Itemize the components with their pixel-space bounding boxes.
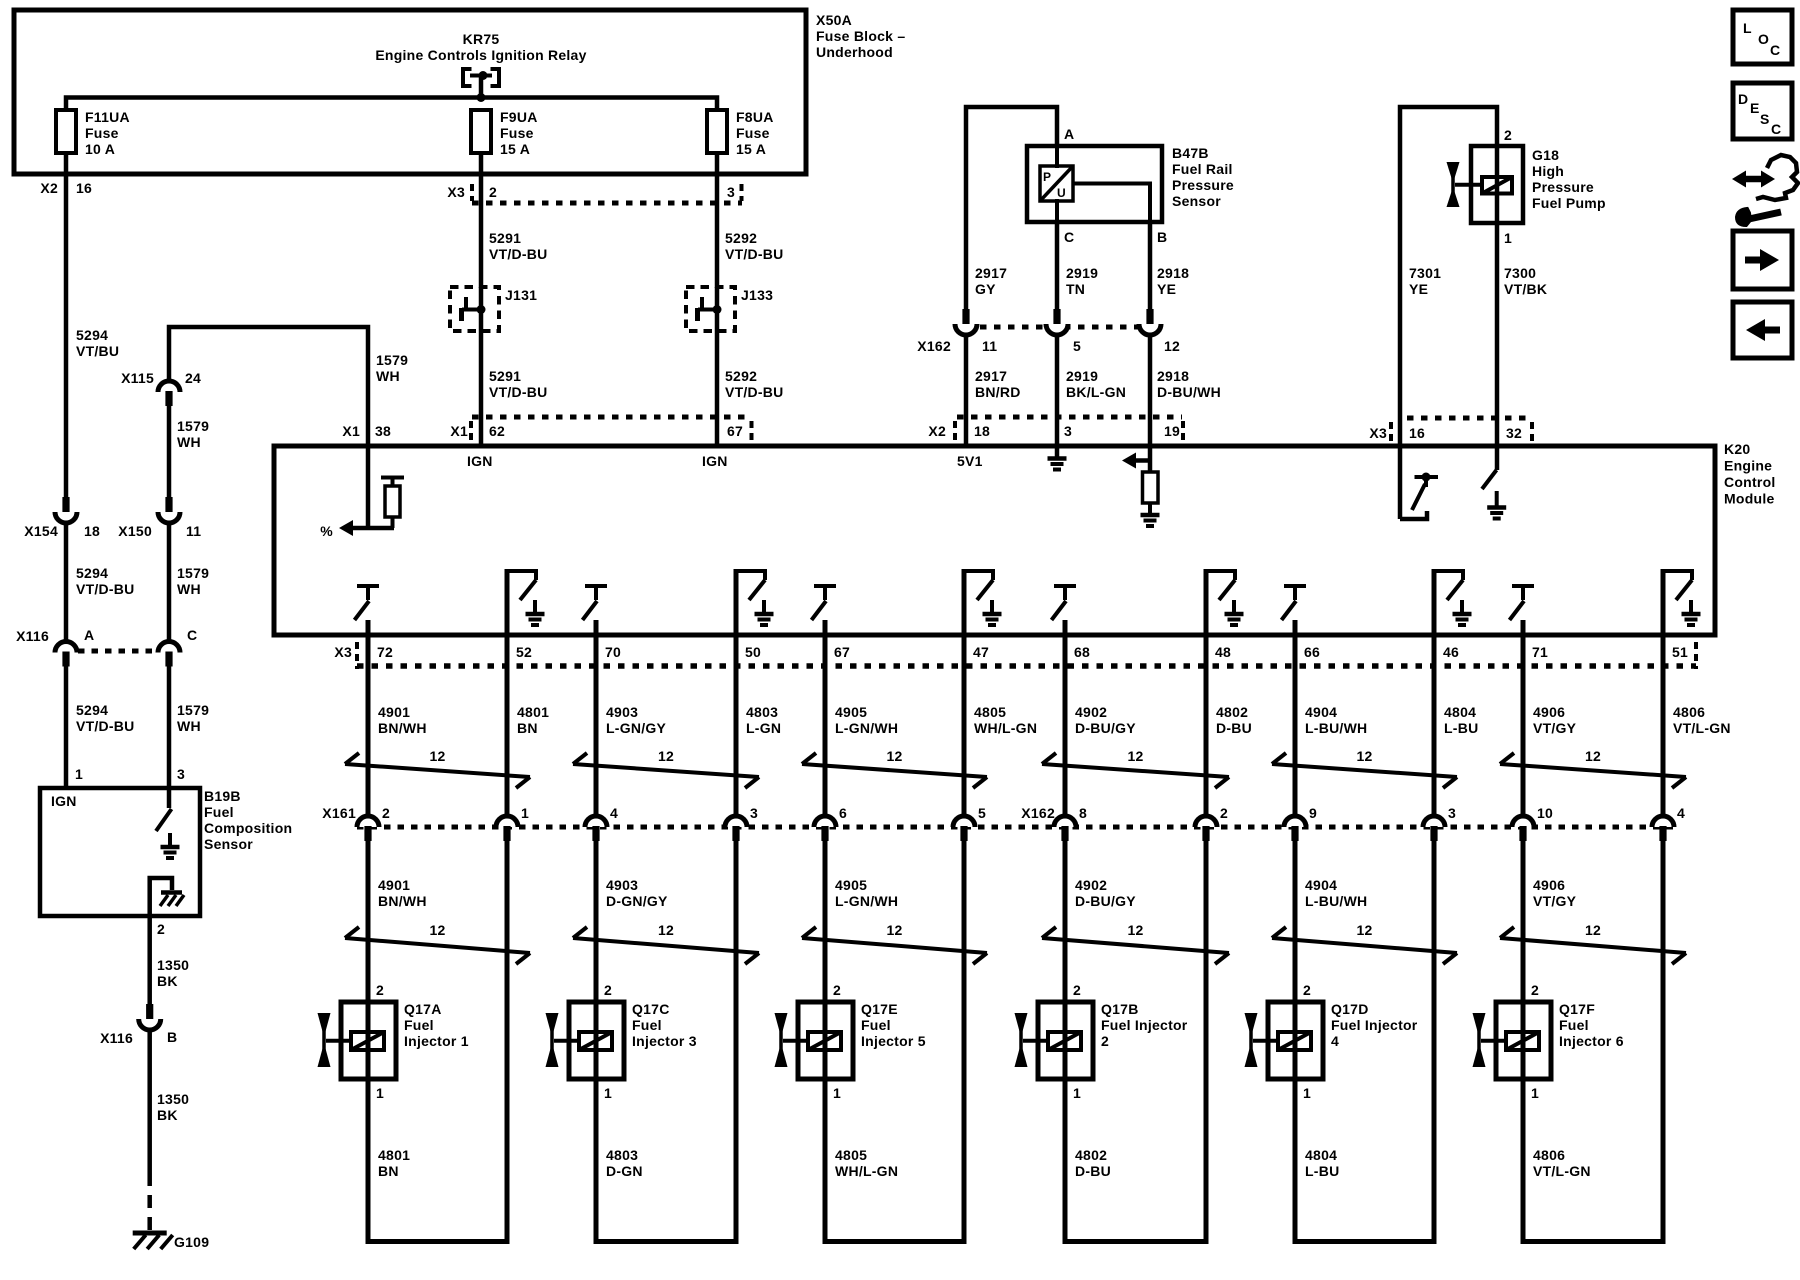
svg-text:BN/WH: BN/WH xyxy=(378,893,427,909)
svg-text:B47B: B47B xyxy=(1172,145,1209,161)
svg-text:4904: 4904 xyxy=(1305,704,1337,720)
svg-text:Fuel Pump: Fuel Pump xyxy=(1532,195,1606,211)
wire 4803 injector Q17C pin 1 down xyxy=(594,1079,599,1244)
wire 4902 connector to injector Q17B xyxy=(1063,840,1068,1003)
svg-text:VT/D-BU: VT/D-BU xyxy=(76,581,135,597)
svg-text:1: 1 xyxy=(604,1085,612,1101)
injector Q17C coil xyxy=(579,1032,612,1050)
svg-text:WH/L-GN: WH/L-GN xyxy=(974,720,1037,736)
G18 stub to coil xyxy=(1455,183,1482,187)
svg-text:1: 1 xyxy=(833,1085,841,1101)
svg-text:5292: 5292 xyxy=(725,230,757,246)
svg-text:VT/D-BU: VT/D-BU xyxy=(489,246,548,262)
splice J131 symbol xyxy=(462,308,481,312)
svg-text:2: 2 xyxy=(382,805,390,821)
svg-text:38: 38 xyxy=(375,423,391,439)
svg-text:12: 12 xyxy=(1356,922,1372,938)
svg-text:VT/L-GN: VT/L-GN xyxy=(1533,1163,1591,1179)
svg-text:BN: BN xyxy=(378,1163,399,1179)
svg-text:12: 12 xyxy=(1127,748,1143,764)
svg-text:4905: 4905 xyxy=(835,704,867,720)
svg-text:62: 62 xyxy=(489,423,505,439)
connector X116 pin B xyxy=(146,1004,153,1019)
svg-text:Q17D: Q17D xyxy=(1331,1001,1369,1017)
wire 4805 injector Q17E pin 1 down xyxy=(823,1079,828,1244)
svg-text:VT/BU: VT/BU xyxy=(76,343,119,359)
wire 5294 VT/BU fuse F11UA to X154 xyxy=(64,153,69,497)
svg-text:1: 1 xyxy=(376,1085,384,1101)
connector X161 X162 dotted line xyxy=(357,825,1676,830)
injector Q17F coil xyxy=(1506,1032,1539,1050)
wire ECM pin 71 to connector xyxy=(1521,620,1526,816)
wire ECM pin 47 to connector xyxy=(962,569,967,816)
svg-text:B19B: B19B xyxy=(204,788,241,804)
svg-text:Fuel: Fuel xyxy=(632,1017,662,1033)
svg-text:Injector 5: Injector 5 xyxy=(861,1033,926,1049)
svg-text:L-GN/GY: L-GN/GY xyxy=(606,720,666,736)
ECM internal wire pin 38 xyxy=(366,446,371,530)
icon hand with arrows and wrench xyxy=(1744,176,1763,183)
svg-text:Fuel: Fuel xyxy=(861,1017,891,1033)
svg-text:5294: 5294 xyxy=(76,565,108,581)
svg-text:4: 4 xyxy=(1677,805,1685,821)
svg-text:4801: 4801 xyxy=(378,1147,410,1163)
svg-text:L-BU/WH: L-BU/WH xyxy=(1305,893,1367,909)
svg-text:2: 2 xyxy=(1073,982,1081,998)
svg-text:Q17E: Q17E xyxy=(861,1001,898,1017)
svg-text:WH: WH xyxy=(376,368,400,384)
ECM ground switch pin 50 xyxy=(736,571,765,580)
icon forward arrow box xyxy=(1733,231,1792,289)
ECM injector driver output pin 68 xyxy=(1054,584,1076,588)
wire 5292 VT/D-BU fuse to splice J133 xyxy=(715,153,720,288)
component B19B Fuel Composition Sensor box xyxy=(40,788,200,916)
wire 1350 BK X116 to ground xyxy=(147,1030,152,1173)
svg-text:4802: 4802 xyxy=(1216,704,1248,720)
bundle 12 wires crossing 4903/4803 upper xyxy=(573,764,759,777)
svg-text:3: 3 xyxy=(727,184,735,200)
wire 4904 connector to injector Q17D xyxy=(1293,840,1298,1003)
G18 internal wire xyxy=(1495,146,1500,223)
svg-text:YE: YE xyxy=(1157,281,1176,297)
wire 4806 injector Q17F pin 1 down xyxy=(1521,1079,1526,1244)
svg-text:D-BU/GY: D-BU/GY xyxy=(1075,893,1136,909)
svg-text:4806: 4806 xyxy=(1673,704,1705,720)
wire ECM pin 51 to connector xyxy=(1661,569,1666,816)
ECM internal percent output arrow xyxy=(351,526,394,531)
svg-text:VT/D-BU: VT/D-BU xyxy=(725,246,784,262)
svg-text:5291: 5291 xyxy=(489,230,521,246)
svg-text:32: 32 xyxy=(1506,425,1522,441)
connector X162 pin 12 xyxy=(1146,309,1153,324)
svg-text:24: 24 xyxy=(185,370,201,386)
svg-text:5294: 5294 xyxy=(76,327,108,343)
connector X150 pin 11 xyxy=(165,497,172,512)
wire 4805 connector to bottom link xyxy=(962,840,967,1244)
svg-text:4805: 4805 xyxy=(835,1147,867,1163)
fuel injector Q17B box xyxy=(1038,1002,1093,1079)
wire 5291 VT/D-BU fuse to splice J131 xyxy=(479,153,484,288)
splice J133 dashed box xyxy=(686,287,735,331)
connector X161 pin 3 xyxy=(725,816,747,827)
icon back arrow box xyxy=(1733,302,1792,358)
icon LOC box xyxy=(1733,10,1792,64)
svg-text:2918: 2918 xyxy=(1157,368,1189,384)
svg-text:2917: 2917 xyxy=(975,265,1007,281)
wire ECM pin 46 to connector xyxy=(1432,569,1437,816)
ECM ground switch pin 46 xyxy=(1434,571,1463,580)
svg-text:1579: 1579 xyxy=(177,702,209,718)
svg-text:J133: J133 xyxy=(741,287,773,303)
svg-text:4804: 4804 xyxy=(1444,704,1476,720)
svg-text:12: 12 xyxy=(1164,338,1180,354)
svg-text:1579: 1579 xyxy=(177,418,209,434)
svg-text:16: 16 xyxy=(1409,425,1425,441)
ECM injector driver output pin 71 xyxy=(1512,584,1534,588)
svg-text:12: 12 xyxy=(1585,748,1601,764)
svg-text:4906: 4906 xyxy=(1533,704,1565,720)
svg-text:Injector 6: Injector 6 xyxy=(1559,1033,1624,1049)
svg-text:Q17A: Q17A xyxy=(404,1001,442,1017)
svg-text:VT/L-GN: VT/L-GN xyxy=(1673,720,1731,736)
svg-text:Engine Controls Ignition Relay: Engine Controls Ignition Relay xyxy=(375,47,586,63)
svg-text:3: 3 xyxy=(177,766,185,782)
svg-text:2919: 2919 xyxy=(1066,368,1098,384)
svg-text:46: 46 xyxy=(1443,644,1459,660)
svg-text:10: 10 xyxy=(1537,805,1553,821)
svg-text:Pressure: Pressure xyxy=(1172,177,1234,193)
connector X162 sensor pins 11 5 12 dotted line xyxy=(966,325,1150,330)
B19B internal signal ground xyxy=(168,833,172,847)
svg-text:12: 12 xyxy=(1356,748,1372,764)
svg-text:16: 16 xyxy=(76,180,92,196)
svg-text:Q17F: Q17F xyxy=(1559,1001,1595,1017)
svg-text:4: 4 xyxy=(1331,1033,1339,1049)
svg-text:1: 1 xyxy=(1073,1085,1081,1101)
svg-text:18: 18 xyxy=(974,423,990,439)
connector X161 pin 6 xyxy=(814,816,836,827)
svg-text:19: 19 xyxy=(1164,423,1180,439)
svg-text:A: A xyxy=(84,627,94,643)
splice J133 symbol xyxy=(698,308,717,312)
svg-text:2: 2 xyxy=(157,921,165,937)
svg-text:4806: 4806 xyxy=(1533,1147,1565,1163)
svg-text:Fuel: Fuel xyxy=(1559,1017,1589,1033)
wire 1350 BK B19B to X116 B xyxy=(147,916,152,1006)
svg-text:12: 12 xyxy=(886,748,902,764)
svg-text:A: A xyxy=(1064,126,1074,142)
connector X154 pin 18 xyxy=(62,497,69,512)
connector X3 fuse block pins 2 and 3 xyxy=(470,184,474,201)
svg-text:1579: 1579 xyxy=(376,352,408,368)
ECM ground switch pin 47 xyxy=(964,571,993,580)
dashed wire to ground G109 xyxy=(147,1173,152,1230)
svg-text:4901: 4901 xyxy=(378,877,410,893)
junction node on fuse bus xyxy=(477,93,486,102)
wire 1579 WH X116 to B19B pin 3 xyxy=(167,666,172,790)
svg-text:1: 1 xyxy=(1504,230,1512,246)
svg-text:1350: 1350 xyxy=(157,1091,189,1107)
svg-text:2: 2 xyxy=(1531,982,1539,998)
injector Q17C check valve arrows xyxy=(550,1014,554,1066)
wire bottom link 4805 to return column xyxy=(823,1239,967,1244)
svg-text:4902: 4902 xyxy=(1075,704,1107,720)
svg-text:BK/L-GN: BK/L-GN xyxy=(1066,384,1126,400)
svg-text:Fuel Injector: Fuel Injector xyxy=(1331,1017,1418,1033)
svg-text:IGN: IGN xyxy=(51,793,77,809)
svg-text:4804: 4804 xyxy=(1305,1147,1337,1163)
wire 2917 GY sensor feed elbow xyxy=(966,107,1057,312)
injector Q17E check valve arrows xyxy=(779,1014,783,1066)
svg-text:4903: 4903 xyxy=(606,877,638,893)
injector Q17B coil xyxy=(1048,1032,1081,1050)
svg-text:D-GN/GY: D-GN/GY xyxy=(606,893,668,909)
svg-text:G18: G18 xyxy=(1532,147,1559,163)
fuse F11UA xyxy=(56,110,76,153)
svg-text:Sensor: Sensor xyxy=(1172,193,1221,209)
injector Q17A check valve arrows xyxy=(322,1014,326,1066)
injector Q17D coil xyxy=(1278,1032,1311,1050)
svg-text:3: 3 xyxy=(1448,805,1456,821)
svg-text:B: B xyxy=(1157,229,1167,245)
injector Q17E wire through xyxy=(823,1002,828,1079)
svg-text:IGN: IGN xyxy=(702,453,728,469)
wire 4802 injector Q17B pin 1 down xyxy=(1063,1079,1068,1244)
svg-text:5: 5 xyxy=(1073,338,1081,354)
svg-text:Underhood: Underhood xyxy=(816,44,893,60)
svg-text:C: C xyxy=(187,627,197,643)
svg-text:X161: X161 xyxy=(322,805,356,821)
svg-text:18: 18 xyxy=(84,523,100,539)
connector X3 ECM bottom strip markers xyxy=(355,642,359,669)
bundle 12 wires crossing 4906/4806 lower xyxy=(1500,938,1686,953)
ground G109 xyxy=(133,1231,167,1236)
wire 2919 TN pin C to X162 xyxy=(1055,222,1060,309)
svg-text:X115: X115 xyxy=(121,370,154,386)
svg-text:6: 6 xyxy=(839,805,847,821)
svg-text:Module: Module xyxy=(1724,491,1775,507)
svg-text:4803: 4803 xyxy=(746,704,778,720)
svg-text:2918: 2918 xyxy=(1157,265,1189,281)
wire ECM pin 52 to connector xyxy=(505,569,510,816)
svg-text:4903: 4903 xyxy=(606,704,638,720)
svg-text:WH: WH xyxy=(177,434,201,450)
wire 4806 connector to bottom link xyxy=(1661,840,1666,1244)
connector X162 pin 3 xyxy=(1423,816,1445,827)
wire 2918 YE pin B to X162 xyxy=(1148,222,1153,309)
injector Q17F check valve arrows xyxy=(1477,1014,1481,1066)
svg-text:D-BU/WH: D-BU/WH xyxy=(1157,384,1221,400)
bundle 12 wires crossing 4904/4804 upper xyxy=(1272,764,1457,777)
svg-text:4901: 4901 xyxy=(378,704,410,720)
connector X161 pin 5 xyxy=(953,816,975,827)
wire 4801 injector Q17A pin 1 down xyxy=(366,1079,371,1244)
svg-text:VT/D-BU: VT/D-BU xyxy=(725,384,784,400)
injector Q17D wire through xyxy=(1293,1002,1298,1079)
ECM internal ground below resistor xyxy=(1141,513,1160,518)
ECM internal ground at pin 3 xyxy=(1055,446,1060,458)
connector X3 ECM pins 16 32 xyxy=(1407,416,1531,421)
svg-text:High: High xyxy=(1532,163,1564,179)
svg-text:2: 2 xyxy=(833,982,841,998)
wire 4903 connector to injector Q17C xyxy=(594,840,599,1003)
svg-text:12: 12 xyxy=(658,922,674,938)
svg-text:Control: Control xyxy=(1724,474,1776,490)
svg-text:Fuel: Fuel xyxy=(404,1017,434,1033)
svg-text:1: 1 xyxy=(1303,1085,1311,1101)
connector X162 pin 11 xyxy=(962,309,969,324)
svg-text:G109: G109 xyxy=(174,1234,209,1250)
svg-text:2917: 2917 xyxy=(975,368,1007,384)
fuel injector Q17C box xyxy=(569,1002,624,1079)
svg-text:%: % xyxy=(320,523,333,539)
wire ECM pin 68 to connector xyxy=(1063,620,1068,816)
svg-text:L-GN/WH: L-GN/WH xyxy=(835,720,898,736)
svg-text:O: O xyxy=(1758,31,1769,47)
svg-text:Injector 3: Injector 3 xyxy=(632,1033,697,1049)
ECM ground switch pin 52 xyxy=(507,571,536,580)
svg-text:Fuse: Fuse xyxy=(500,125,534,141)
svg-text:X2: X2 xyxy=(40,180,58,196)
connector X162 pin 9 xyxy=(1284,816,1306,827)
ECM internal resistor at pin 38 xyxy=(381,476,404,480)
wire 5294 VT/D-BU X154 to X116 xyxy=(64,523,69,642)
svg-text:4906: 4906 xyxy=(1533,877,1565,893)
bundle 12 wires crossing 4901/4801 lower xyxy=(345,938,530,953)
wire 4905 connector to injector Q17E xyxy=(823,840,828,1003)
svg-text:4802: 4802 xyxy=(1075,1147,1107,1163)
svg-text:7300: 7300 xyxy=(1504,265,1536,281)
svg-text:Engine: Engine xyxy=(1724,458,1772,474)
wire 5292 VT/D-BU splice J133 to ECM pin 67 xyxy=(715,287,720,446)
wire 5294 VT/D-BU X116 to B19B pin 1 xyxy=(64,666,69,790)
svg-text:52: 52 xyxy=(516,644,532,660)
wire 4803 connector to bottom link xyxy=(734,840,739,1244)
component G18 High Pressure Fuel Pump box xyxy=(1471,146,1523,223)
svg-text:C: C xyxy=(1064,229,1074,245)
bundle 12 wires crossing 4905/4805 upper xyxy=(802,764,987,777)
fuse block X50A Fuse Block - Underhood dashed outline xyxy=(14,10,806,174)
svg-text:2: 2 xyxy=(376,982,384,998)
svg-text:IGN: IGN xyxy=(467,453,493,469)
svg-text:X1: X1 xyxy=(342,423,360,439)
connector X162 pin 8 xyxy=(1054,816,1076,827)
svg-text:BN: BN xyxy=(517,720,538,736)
wire relay KR75 to bus xyxy=(479,77,484,99)
relay KR75 contact symbol xyxy=(463,69,472,86)
bundle 12 wires crossing 4905/4805 lower xyxy=(802,938,987,953)
connector X1 pins 62 and 67 dotted line xyxy=(472,415,752,420)
B47B P/U transducer symbol xyxy=(1040,166,1073,201)
bundle 12 wires crossing 4906/4806 upper xyxy=(1500,764,1686,777)
svg-text:15 A: 15 A xyxy=(736,141,766,157)
svg-text:X162: X162 xyxy=(1021,805,1055,821)
svg-text:1579: 1579 xyxy=(177,565,209,581)
connector X162 pin 4 xyxy=(1652,816,1674,827)
ECM internal resistor at pin 19 xyxy=(1143,472,1159,503)
G18 pump coil symbol xyxy=(1482,177,1512,194)
svg-text:L: L xyxy=(1743,20,1752,36)
svg-text:2: 2 xyxy=(604,982,612,998)
wire 2919 BK/L-GN X162 to ECM pin 3 xyxy=(1055,335,1060,446)
svg-text:11: 11 xyxy=(186,523,201,539)
svg-text:X3: X3 xyxy=(334,644,352,660)
svg-text:E: E xyxy=(1750,100,1760,116)
svg-text:L-BU/WH: L-BU/WH xyxy=(1305,720,1367,736)
B47B internal wire transducer to pin C xyxy=(1055,199,1059,222)
fuse F8UA xyxy=(707,110,727,153)
svg-text:12: 12 xyxy=(1585,922,1601,938)
ECM injector driver output pin 70 xyxy=(585,584,607,588)
svg-text:4902: 4902 xyxy=(1075,877,1107,893)
svg-text:Fuse: Fuse xyxy=(85,125,119,141)
connector X3 fuse block dotted line xyxy=(472,201,742,206)
svg-text:P: P xyxy=(1043,170,1051,184)
wire bottom link 4803 to return column xyxy=(594,1239,739,1244)
wire 2917 BN/RD X162 to ECM pin 18 xyxy=(964,335,969,446)
fuse F9UA xyxy=(471,110,491,153)
injector Q17A coil xyxy=(351,1032,384,1050)
svg-text:Fuel Injector: Fuel Injector xyxy=(1101,1017,1188,1033)
svg-text:D-GN: D-GN xyxy=(606,1163,643,1179)
module K20 Engine Control Module dashed outline xyxy=(274,446,1715,635)
wire ECM pin 50 to connector xyxy=(734,569,739,816)
svg-text:KR75: KR75 xyxy=(463,31,500,47)
wire ECM pin 48 to connector xyxy=(1204,569,1209,816)
svg-text:VT/D-BU: VT/D-BU xyxy=(489,384,548,400)
svg-text:70: 70 xyxy=(605,644,621,660)
svg-text:S: S xyxy=(1760,111,1770,127)
svg-text:5291: 5291 xyxy=(489,368,521,384)
svg-text:Fuel Rail: Fuel Rail xyxy=(1172,161,1233,177)
wire bottom link 4802 to return column xyxy=(1063,1239,1209,1244)
connector X162 pin 5 xyxy=(1053,309,1060,324)
svg-text:2: 2 xyxy=(1101,1033,1109,1049)
svg-text:D-BU: D-BU xyxy=(1216,720,1252,736)
wire 7300 VT/BK pump pin 1 to ECM pin 32 xyxy=(1495,223,1500,446)
connector X162 pin 2 xyxy=(1195,816,1217,827)
wire 1579 WH X150 to X116 C xyxy=(167,523,172,642)
injector Q17B check valve arrows xyxy=(1019,1014,1023,1066)
svg-text:51: 51 xyxy=(1672,644,1688,660)
wire 2918 D-BU/WH X162 to ECM pin 19 xyxy=(1148,335,1153,446)
svg-text:47: 47 xyxy=(973,644,989,660)
svg-text:12: 12 xyxy=(429,748,445,764)
svg-text:X150: X150 xyxy=(118,523,152,539)
wire fuse supply bus xyxy=(66,98,717,112)
bundle 12 wires crossing 4901/4801 upper xyxy=(345,764,530,777)
svg-text:L-GN/WH: L-GN/WH xyxy=(835,893,898,909)
svg-text:X3: X3 xyxy=(447,184,465,200)
connector X161 pin 2 xyxy=(357,816,379,827)
svg-text:X3: X3 xyxy=(1369,425,1387,441)
svg-text:4905: 4905 xyxy=(835,877,867,893)
svg-text:67: 67 xyxy=(834,644,850,660)
icon DESC box xyxy=(1733,83,1792,139)
svg-text:X50A: X50A xyxy=(816,12,852,28)
svg-text:WH: WH xyxy=(177,581,201,597)
svg-text:12: 12 xyxy=(658,748,674,764)
svg-text:2: 2 xyxy=(489,184,497,200)
svg-text:C: C xyxy=(1771,121,1781,137)
svg-text:Q17B: Q17B xyxy=(1101,1001,1139,1017)
svg-text:F9UA: F9UA xyxy=(500,109,538,125)
svg-text:66: 66 xyxy=(1304,644,1320,660)
B19B internal switch from pin 3 xyxy=(167,788,172,808)
svg-text:C: C xyxy=(1770,42,1780,58)
svg-text:48: 48 xyxy=(1215,644,1231,660)
svg-text:F11UA: F11UA xyxy=(85,109,130,125)
